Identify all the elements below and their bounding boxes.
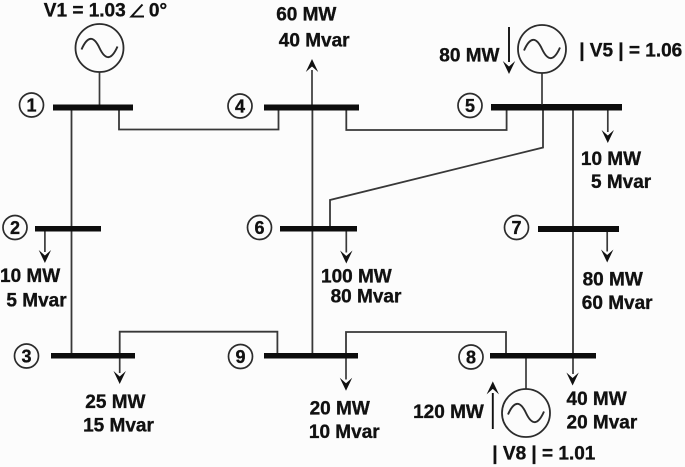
svg-text:| V5 | = 1.06: | V5 | = 1.06 <box>579 41 682 62</box>
svg-text:9: 9 <box>235 347 245 367</box>
svg-text:0°: 0° <box>149 1 167 22</box>
generator G5 <box>518 25 566 105</box>
svg-text:20 MW: 20 MW <box>310 399 370 420</box>
bus 1 <box>53 105 133 111</box>
bus 9 <box>264 353 358 359</box>
bus 5 <box>491 104 622 111</box>
load at bus 8 (40 MW 20 Mvar) <box>566 359 637 434</box>
svg-text:60 MW: 60 MW <box>276 5 336 26</box>
svg-text:6: 6 <box>254 218 264 238</box>
node 2 label circle <box>3 216 27 240</box>
wire bus2-bus3 <box>71 231 73 354</box>
svg-text:5 Mvar: 5 Mvar <box>6 290 67 311</box>
node 7 label circle <box>505 216 529 240</box>
svg-text:5: 5 <box>465 96 475 116</box>
load at bus 4 (60 MW 40 Mvar, arrow up) <box>276 5 350 105</box>
bus 3 <box>51 353 135 359</box>
svg-text:8: 8 <box>466 347 476 367</box>
svg-text:120 MW: 120 MW <box>413 402 484 423</box>
node 8 label circle <box>459 345 483 369</box>
wire bus7-bus8 <box>572 232 574 354</box>
load at bus 2 (10 MW 5 Mvar) <box>0 232 67 312</box>
svg-text:80 Mvar: 80 Mvar <box>331 286 402 307</box>
node 4 label circle <box>228 94 252 118</box>
svg-text:10 Mvar: 10 Mvar <box>309 422 380 443</box>
wire bus1-bus4 <box>119 110 279 130</box>
node 1 label circle <box>20 93 44 117</box>
wire bus3-bus9 <box>120 332 278 354</box>
svg-text:1: 1 <box>26 95 36 115</box>
svg-text:5 Mvar: 5 Mvar <box>591 172 652 193</box>
load at bus 6 (100 MW 80 Mvar) <box>321 232 402 308</box>
wire bus1-bus2 <box>71 110 73 226</box>
load at bus 5 (10 MW 5 Mvar) <box>581 111 652 194</box>
node 9 label circle <box>229 345 253 369</box>
wire bus9-bus8 <box>346 332 506 354</box>
bus 6 <box>280 226 357 232</box>
generator G1 <box>76 24 124 105</box>
svg-text:2: 2 <box>10 218 20 238</box>
node 3 label circle <box>15 344 39 368</box>
label V8 magnitude <box>492 444 595 465</box>
svg-text:4: 4 <box>235 96 245 116</box>
svg-text:7: 7 <box>511 218 521 238</box>
label V5 magnitude <box>579 41 682 62</box>
bus 2 <box>35 226 101 232</box>
svg-text:100 MW: 100 MW <box>321 267 392 288</box>
generator G8 input arrow 120 MW <box>413 381 499 429</box>
wire bus6-bus9 <box>311 231 313 354</box>
generator G5 input arrow 80 MW <box>439 27 515 74</box>
svg-text:3: 3 <box>21 346 31 366</box>
bus 8 <box>490 353 596 359</box>
svg-text:15 Mvar: 15 Mvar <box>83 416 154 437</box>
node 5 label circle <box>458 94 482 118</box>
wire bus4-bus6 <box>311 110 313 226</box>
generator G8 <box>502 359 550 438</box>
svg-text:80 MW: 80 MW <box>439 46 499 67</box>
svg-text:10 MW: 10 MW <box>581 149 641 170</box>
label V1 = 1.03 angle 0deg <box>44 1 167 22</box>
svg-text:25 MW: 25 MW <box>85 392 145 413</box>
svg-text:10 MW: 10 MW <box>0 266 60 287</box>
wire bus4-bus5 <box>346 110 506 130</box>
bus 4 <box>264 105 359 111</box>
wire bus5-bus6 <box>330 110 543 227</box>
svg-text:40 MW: 40 MW <box>567 389 627 410</box>
load at bus 3 (25 MW 15 Mvar) <box>83 359 154 437</box>
svg-text:40 Mvar: 40 Mvar <box>279 31 350 52</box>
svg-text:60 Mvar: 60 Mvar <box>582 293 653 314</box>
load at bus 7 (80 MW 60 Mvar) <box>582 232 653 314</box>
svg-text:20 Mvar: 20 Mvar <box>567 413 638 434</box>
svg-text:V1 = 1.03: V1 = 1.03 <box>44 1 126 22</box>
svg-text:| V8 | = 1.01: | V8 | = 1.01 <box>492 444 595 465</box>
node 6 label circle <box>248 216 272 240</box>
load at bus 9 (20 MW 10 Mvar) <box>309 359 380 444</box>
wire bus5-bus7 <box>572 110 574 226</box>
svg-text:80 MW: 80 MW <box>583 270 643 291</box>
bus 7 <box>538 226 619 232</box>
